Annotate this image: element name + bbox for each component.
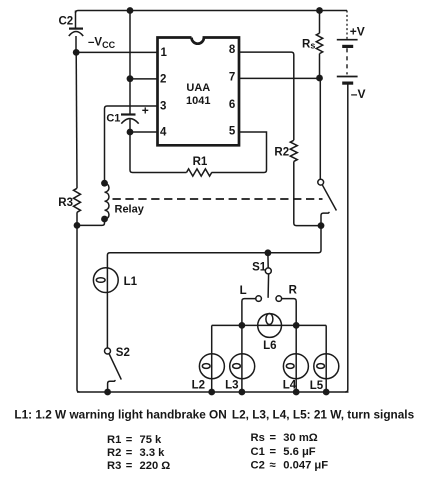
wire pin 2 [130, 78, 158, 80]
junction dot R3 bottom node [74, 222, 81, 229]
junction dot S2 bottom [104, 389, 111, 396]
relay switch contact circle [318, 179, 324, 185]
junction dot L2 bottom [208, 389, 215, 396]
resistor R1 [187, 156, 212, 176]
svg-text:R2: R2 [107, 447, 121, 459]
value label Rs [251, 432, 318, 444]
relay switch blade [322, 185, 336, 211]
svg-text:5.6 μF: 5.6 μF [283, 446, 316, 458]
svg-text:Rs: Rs [302, 39, 315, 51]
svg-text:L: L [240, 285, 247, 297]
svg-text:S1: S1 [252, 262, 267, 274]
value label C1 [251, 446, 316, 458]
junction dot relay coil bottom [101, 216, 108, 223]
wire pin 4 [130, 131, 158, 133]
junction dot top rail / Rs [316, 7, 323, 14]
svg-text:C1: C1 [106, 112, 120, 124]
svg-text:R3: R3 [58, 197, 73, 209]
lamp L5 [310, 354, 339, 392]
wire -VCC node down to R3 [75, 52, 78, 188]
junction dot pin7 / Rs bottom [316, 75, 323, 82]
svg-text:L3: L3 [225, 379, 238, 391]
wire L4 drop [295, 325, 297, 392]
value label R1 [107, 434, 162, 446]
capacitor C1 [106, 103, 148, 124]
wire battery negative down right side [345, 83, 348, 392]
dashed link between battery cells [346, 48, 348, 74]
junction dot row R [293, 322, 300, 329]
svg-text:C1: C1 [251, 446, 265, 458]
wire switch node down and across to L1 [107, 226, 321, 348]
junction dot row L [239, 322, 246, 329]
switch S2 [105, 347, 130, 392]
wire battery drop from rail [346, 11, 348, 40]
svg-text:30 mΩ: 30 mΩ [283, 432, 317, 444]
lamp L6 [258, 314, 282, 353]
svg-text:1041: 1041 [186, 95, 210, 107]
svg-text:3: 3 [160, 101, 166, 113]
svg-text:220 Ω: 220 Ω [140, 460, 171, 472]
svg-text:+V: +V [350, 25, 365, 39]
capacitor C2 [59, 11, 84, 53]
contact R circle and wire [276, 285, 298, 326]
wire pin 8 to R2 [239, 52, 294, 140]
junction dot top rail / pin2 column [127, 7, 134, 14]
lamp L3 [225, 354, 255, 392]
wire lamp row [212, 324, 327, 326]
junction dot pin 2 node [127, 75, 134, 82]
wire top rail to pin2 node [129, 11, 131, 79]
svg-text:5: 5 [229, 126, 236, 138]
svg-text:3.3 k: 3.3 k [140, 447, 166, 459]
relay switch fixed contact hook [321, 212, 330, 226]
wire pin 3 to relay [105, 106, 158, 183]
svg-text:L5: L5 [310, 380, 324, 392]
svg-text:=: = [126, 447, 133, 459]
svg-text:R2: R2 [274, 146, 289, 158]
lamp L1 [93, 268, 137, 293]
wire C1 bottom to pin4 node [129, 119, 131, 132]
svg-text:R: R [289, 285, 298, 297]
battery cell +V [337, 25, 365, 47]
inductor relay coil [105, 183, 145, 219]
junction dot L3 bottom [239, 389, 246, 396]
IC U1 UAA 1041 outline with notch [158, 38, 240, 146]
svg-text:7: 7 [229, 72, 235, 84]
wire R2 bottom to relay switch node [294, 161, 319, 225]
svg-text:75 k: 75 k [140, 434, 163, 446]
svg-text:L1: 1.2 W warning light handbr: L1: 1.2 W warning light handbrake ON [14, 407, 226, 421]
svg-text:0.047 μF: 0.047 μF [283, 459, 328, 471]
contact L circle and wire [240, 285, 262, 325]
svg-text:L1: L1 [124, 276, 138, 288]
wire relay coil bottom to R3 node [77, 219, 105, 225]
junction dot L4 bottom [293, 389, 300, 396]
svg-text:C2: C2 [251, 459, 265, 471]
junction dot S1 branch [265, 249, 272, 256]
node -VCC junction dot [73, 49, 80, 56]
IC U1 name text [186, 82, 210, 107]
resistor R2 [274, 140, 297, 161]
wire L2 drop [211, 325, 213, 392]
lamp L2 [192, 354, 225, 392]
resistor Rs [302, 11, 323, 79]
battery cell -V [337, 77, 366, 101]
svg-text:8: 8 [229, 44, 236, 56]
svg-text:4: 4 [160, 127, 167, 139]
svg-text:2: 2 [160, 73, 166, 85]
wire top +V rail [76, 11, 348, 14]
svg-text:R1: R1 [193, 156, 208, 168]
svg-text:=: = [270, 432, 277, 444]
wire L5 drop [325, 325, 327, 392]
svg-text:L6: L6 [263, 340, 276, 352]
svg-text:≈: ≈ [270, 459, 276, 471]
wire bottom rail [77, 391, 349, 393]
svg-text:L2, L3, L4, L5: 21 W, turn sig: L2, L3, L4, L5: 21 W, turn signals [232, 407, 415, 421]
svg-text:S2: S2 [116, 347, 130, 359]
lamp L4 [283, 354, 309, 392]
wire R3 down to bottom rail [77, 212, 80, 392]
svg-text:=: = [126, 460, 133, 472]
svg-text:=: = [270, 446, 277, 458]
resistor R3 [58, 188, 80, 212]
junction dot relay switch bottom node [318, 222, 325, 229]
junction dot L5 bottom [323, 389, 330, 396]
svg-text:=: = [126, 434, 133, 446]
value label R2 [107, 447, 165, 459]
svg-text:L2: L2 [192, 379, 205, 391]
wire -VCC to pin 1 [76, 51, 157, 53]
svg-text:R3: R3 [107, 460, 121, 472]
dashed mechanical link relay to switch [113, 198, 323, 200]
wire L3 drop [241, 325, 243, 392]
svg-text:UAA: UAA [186, 82, 210, 94]
value label R3 [107, 460, 170, 472]
svg-text:C2: C2 [59, 16, 74, 28]
svg-text:R1: R1 [107, 434, 121, 446]
switch S1 [252, 253, 271, 298]
svg-text:–V: –V [351, 87, 366, 101]
svg-text:Rs: Rs [251, 432, 265, 444]
wire pin2 node to C1 top [129, 79, 131, 114]
svg-text:6: 6 [229, 99, 235, 111]
junction dot relay coil top [101, 180, 108, 187]
junction dot pin 4 node [127, 129, 134, 136]
svg-text:Relay: Relay [115, 204, 145, 216]
svg-text:1: 1 [161, 47, 168, 59]
wire Rs node down to relay switch [319, 78, 321, 179]
wire pin 7 to Rs bottom [239, 77, 320, 79]
wire R1 to pin 5 [212, 132, 267, 173]
wire pin4 node down to R1 [130, 132, 187, 173]
value label C2 [251, 459, 329, 471]
